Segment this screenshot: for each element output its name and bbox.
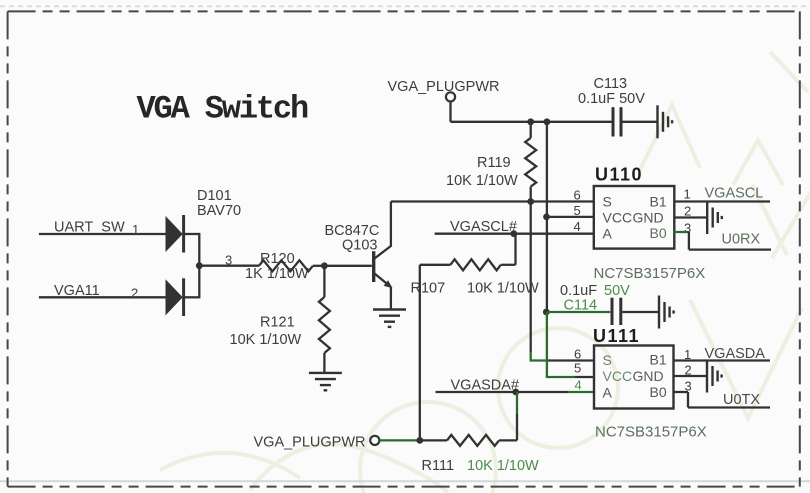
svg-text:VGA Switch: VGA Switch — [137, 91, 308, 128]
wire base node to Q103 base — [324, 265, 371, 267]
wire rail to R119 — [530, 122, 532, 138]
wire R111 right lead — [499, 439, 517, 441]
svg-text:U0TX: U0TX — [723, 392, 760, 408]
wire C114 to ground — [622, 311, 659, 313]
svg-text:10K 1/10W: 10K 1/10W — [467, 458, 539, 474]
svg-text:1: 1 — [684, 187, 691, 202]
svg-text:S: S — [603, 194, 612, 210]
svg-text:VGA_PLUGPWR: VGA_PLUGPWR — [254, 435, 366, 451]
resistor R107 — [450, 259, 500, 270]
wire into U111 pin 6 — [547, 359, 594, 361]
terminal circle VGA_PLUGPWR bottom — [370, 436, 379, 445]
wire U110 pin 2 to ground — [674, 216, 707, 218]
svg-text:A: A — [603, 385, 613, 401]
svg-text:D101: D101 — [197, 188, 232, 204]
wire into U111 pin 6 green — [530, 359, 547, 361]
wire plug to junction green — [379, 439, 419, 441]
svg-text:Q103: Q103 — [342, 238, 377, 254]
wire VCC down to C114 — [546, 217, 548, 312]
capacitor C113 — [612, 107, 615, 136]
wire VCC down to U110 pin 5 — [546, 122, 548, 217]
svg-text:4: 4 — [575, 378, 582, 393]
wire R111 riser to VGASDA# — [516, 392, 518, 414]
wire R121 to ground — [323, 353, 325, 373]
wire R120 to base node — [313, 265, 325, 267]
svg-text:GND: GND — [633, 368, 664, 384]
wire collector rail to U110 S — [391, 200, 594, 202]
wire UART_SW to D101 pin 1 — [39, 233, 166, 235]
svg-text:VGA_PLUGPWR: VGA_PLUGPWR — [388, 79, 500, 95]
svg-text:BAV70: BAV70 — [197, 203, 241, 219]
wire VGA_PLUGPWR drop — [449, 102, 451, 122]
ground U111 pin 2 — [707, 360, 722, 393]
svg-text:R121: R121 — [260, 315, 295, 331]
svg-text:VGASDA: VGASDA — [705, 346, 766, 362]
wire D101 bottom cathode to join — [184, 296, 200, 298]
wire C113 to ground — [623, 121, 658, 123]
svg-text:R119: R119 — [477, 155, 511, 171]
wire VGA11 to D101 pin 2 — [39, 296, 166, 298]
ground C113 — [658, 105, 673, 138]
wire U110 B0 stub — [674, 231, 689, 233]
junction VGASDA# R111 — [512, 389, 519, 396]
svg-text:B1: B1 — [650, 352, 667, 368]
wire R107 right lead — [501, 264, 516, 266]
wire U111 pin 2 to ground — [674, 375, 708, 377]
wire base node down to R121 — [323, 266, 325, 297]
wire C114 left — [547, 311, 610, 313]
wire node 3 to R120 — [199, 265, 259, 267]
svg-text:5: 5 — [574, 361, 581, 376]
svg-text:U110: U110 — [595, 165, 643, 185]
svg-text:2: 2 — [131, 286, 138, 301]
ground R121 — [309, 373, 342, 390]
wire U111 B0 stub — [674, 391, 689, 393]
transistor Q103 — [374, 246, 392, 288]
wire U111 B1 to VGASDA — [674, 359, 771, 361]
wire VGASCL# to U110 A — [435, 233, 594, 235]
svg-text:VCC: VCC — [603, 210, 633, 226]
svg-text:3: 3 — [684, 221, 691, 236]
svg-text:B0: B0 — [650, 225, 667, 241]
capacitor C114 — [611, 298, 614, 325]
op-amp U110 body — [594, 186, 675, 249]
wire U110 B1 to VGASCL — [674, 200, 770, 202]
wire U111 B0 down — [687, 392, 689, 408]
wire to U110 pin 5 — [547, 216, 594, 218]
wire junction to R111 — [420, 439, 447, 441]
junction base node — [321, 262, 328, 269]
junction VGASCL# R107 — [510, 230, 517, 237]
wire VGASDA# green tail — [568, 391, 594, 393]
svg-text:VGASCL: VGASCL — [705, 186, 764, 202]
svg-text:B1: B1 — [650, 194, 667, 210]
wire U110 B0 down — [688, 232, 690, 250]
resistor R120 — [259, 260, 313, 271]
svg-text:5: 5 — [574, 203, 581, 218]
svg-text:6: 6 — [574, 188, 581, 203]
junction node 3 — [196, 262, 203, 269]
faint bottom page line — [0, 480, 810, 482]
wire S line down green — [530, 352, 532, 361]
junction U110 VCC — [543, 214, 550, 221]
resistor R121 — [319, 297, 330, 353]
svg-text:C113: C113 — [594, 76, 628, 92]
svg-text:U111: U111 — [593, 326, 640, 346]
diode D101 top element — [166, 217, 182, 251]
svg-text:50V: 50V — [604, 283, 630, 299]
svg-text:A: A — [603, 226, 613, 242]
wire D101 top cathode to join — [184, 233, 200, 235]
svg-text:10K 1/10W: 10K 1/10W — [446, 173, 518, 189]
svg-text:6: 6 — [574, 347, 581, 362]
faint top page line — [0, 5, 810, 7]
wire R107 left lead — [420, 264, 451, 266]
junction plug rail — [416, 437, 423, 444]
svg-text:0.1uF 50V: 0.1uF 50V — [578, 91, 645, 107]
wire power rail — [451, 121, 612, 123]
ground C114 — [659, 296, 674, 329]
svg-text:10K 1/10W: 10K 1/10W — [467, 281, 539, 297]
terminal circle VGA_PLUGPWR top — [446, 92, 455, 101]
svg-text:1K 1/10W: 1K 1/10W — [245, 266, 309, 282]
wire S line down — [530, 202, 532, 353]
wire into U111 pin 5 green — [546, 376, 575, 378]
wire U0RX — [689, 248, 771, 250]
svg-text:NC7SB3157P6X: NC7SB3157P6X — [594, 265, 706, 282]
wire Q103 emitter to ground — [390, 287, 392, 310]
watermark — [160, 52, 810, 493]
svg-text:4: 4 — [574, 219, 581, 234]
ground U110 pin 2 — [707, 201, 722, 234]
svg-text:B0: B0 — [650, 384, 667, 400]
wire R111 riser lower — [516, 414, 518, 440]
wire R107 riser to VGASCL# — [514, 234, 516, 265]
resistor R119 — [525, 138, 536, 187]
svg-text:1: 1 — [132, 222, 139, 237]
junction C114 — [543, 309, 550, 316]
diode D101 bottom element — [166, 281, 182, 315]
wire R107 drop to plug rail — [419, 265, 421, 441]
wire U0TX — [688, 406, 770, 408]
junction power rail VCC — [544, 118, 551, 125]
wire VGASDA# to U111 A — [436, 391, 569, 393]
svg-text:R107: R107 — [411, 281, 446, 297]
wire cathode join vertical — [198, 233, 200, 299]
svg-text:R111: R111 — [422, 458, 455, 474]
ground Q103 — [373, 310, 406, 327]
wire Q103 collector up — [390, 202, 392, 247]
svg-text:10K 1/10W: 10K 1/10W — [230, 332, 302, 348]
resistor R111 — [447, 435, 499, 446]
junction R119 bottom — [527, 198, 534, 205]
svg-text:GND: GND — [633, 210, 664, 226]
junction power rail R119 — [527, 118, 534, 125]
svg-text:NC7SB3157P6X: NC7SB3157P6X — [595, 424, 707, 441]
wire R119 to collector rail — [530, 187, 532, 202]
svg-text:U0RX: U0RX — [722, 232, 761, 248]
svg-text:VCC: VCC — [603, 368, 633, 384]
wire into U111 pin 5 — [575, 376, 594, 378]
svg-text:2: 2 — [684, 204, 691, 219]
op-amp U111 body — [594, 346, 674, 409]
svg-text:S: S — [603, 352, 612, 368]
wire VCC down to U111 pin 5 — [546, 312, 548, 377]
